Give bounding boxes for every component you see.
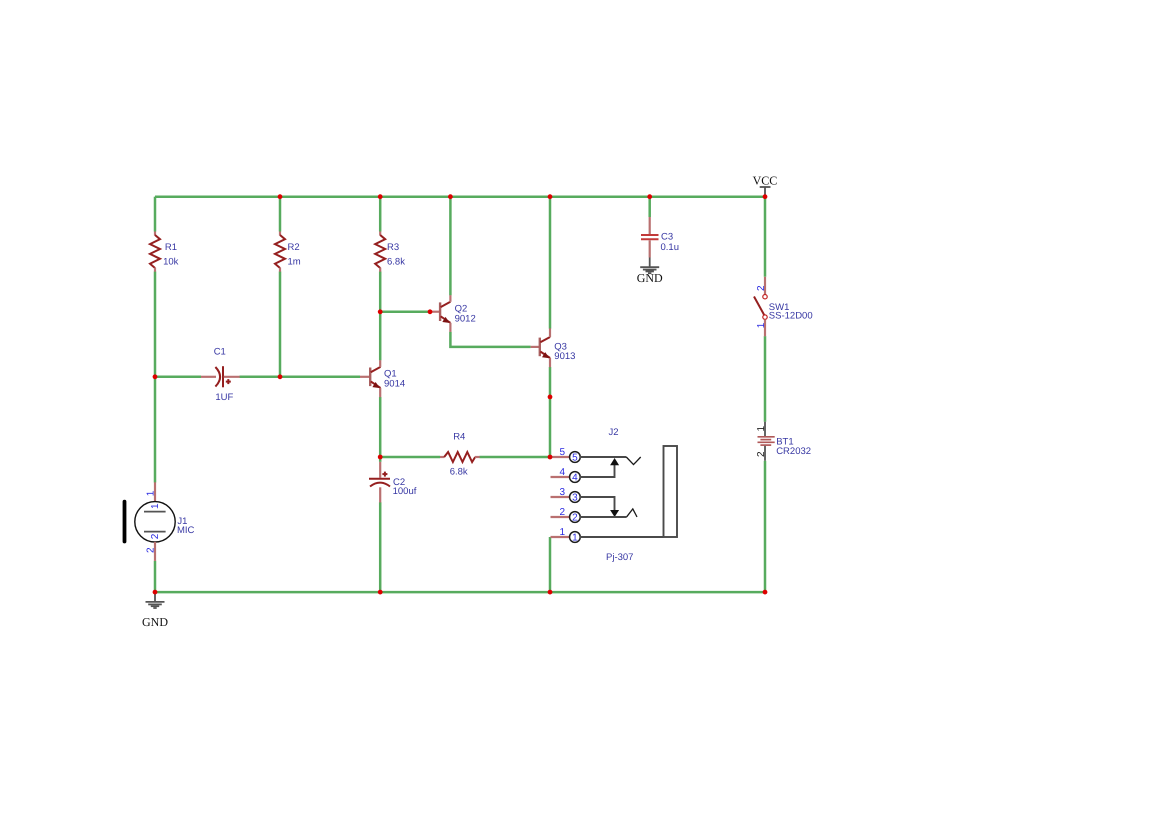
J2 pin 2 circle [570,512,581,523]
svg-text:6.8k: 6.8k [387,257,405,268]
SW1 lower contact circle [763,315,767,319]
wire C1 row left [155,376,201,379]
GND bars [146,601,165,603]
svg-text:100uf: 100uf [393,486,417,497]
svg-text:0.1u: 0.1u [661,242,680,253]
Q3 base pin lead [531,346,540,348]
svg-text:1m: 1m [288,257,301,268]
J2 pin 4 lead [551,476,571,478]
wire R4 right [480,456,551,459]
GND bars [640,266,659,268]
svg-text:R2: R2 [288,242,300,253]
R1 zigzag body [150,235,160,268]
J2 pin 5 lead [551,456,571,458]
VCC bar [760,186,771,188]
wire node to Q2 base [380,311,430,314]
svg-text:3: 3 [572,492,578,503]
GND stem [649,258,651,268]
svg-text:9012: 9012 [455,313,476,324]
wire R2 bottom to C1 row [279,272,282,377]
junction C1 row left rail [153,374,158,379]
svg-text:4: 4 [560,467,566,478]
svg-text:1: 1 [756,322,767,328]
svg-text:2: 2 [756,285,767,291]
svg-text:2: 2 [560,507,566,518]
svg-text:4: 4 [572,472,578,483]
J2 ring contact line [580,516,627,518]
junction VCC corner [763,194,768,199]
Q2 upper pin lead [449,295,451,302]
wire left rail upper [154,197,157,232]
J2 tip contact line [580,456,626,458]
J2 pin 1 lead [551,536,571,538]
svg-text:Pj-307: Pj-307 [606,552,633,563]
svg-text:GND: GND [637,271,663,285]
J1 mic circle body [135,502,175,542]
SW1 pin 2 lead [764,277,766,295]
R2 pin 2 lead [279,268,281,272]
Q2 base bar [439,302,441,321]
capacitor C2 [369,462,417,503]
Q3 emitter arrow [542,352,550,358]
C2 straight positive plate [369,478,390,480]
C1 plus sign [226,381,231,383]
junction C1 row R2 [278,374,283,379]
J2 pin 4 switch line [580,461,615,477]
junction R3 column Q2 base [378,309,383,314]
svg-text:2: 2 [150,533,161,539]
Q3 emitter pin lead [549,358,551,367]
C2 curved negative plate [370,483,390,487]
C3 pin 2 lead [649,240,651,257]
svg-text:3: 3 [560,487,566,498]
junction top rail R2 [278,194,283,199]
R2 pin 1 lead [279,232,281,236]
junction Q2 base pin [428,309,433,314]
Q2 lower pin lead [449,323,451,332]
svg-text:GND: GND [142,615,168,629]
svg-text:5: 5 [560,447,566,458]
wire left rail R1 to C1 row and J1 [154,272,157,483]
resistor R4 [440,432,480,478]
J2 pin 4 arrow up [610,458,619,465]
wire Q1 emitter to C2 [379,397,382,462]
Q1 base pin lead [360,376,370,378]
SW1 upper contact circle [763,295,767,299]
R4 pin 2 lead [475,456,480,458]
C1 curved negative plate [215,367,220,387]
J1 pin 1 lead [154,482,156,501]
power flag VCC [753,173,778,196]
J2 pin 4 circle [570,472,581,483]
C3 pin 1 lead [649,217,651,234]
junction top rail R3 [378,194,383,199]
wire Q2 emitter to Q3 base [450,332,530,347]
wire SW1 to BT1 [764,336,767,422]
svg-text:1: 1 [560,527,566,538]
wire right rail to SW1 [764,197,767,277]
Q1 collector pin lead [379,360,381,367]
J2 pin 3 arrow down [610,510,619,517]
R3 pin 1 lead [379,232,381,236]
SW1 lever [754,297,764,316]
wire bottom GND rail [155,591,765,594]
svg-text:SS-12D00: SS-12D00 [769,311,813,322]
svg-text:2: 2 [756,451,767,457]
C1 pin 1 lead [201,376,216,378]
capacitor C3 [641,217,679,258]
svg-text:6.8k: 6.8k [450,467,468,478]
wire R4 left [380,456,440,459]
J2 pin 1 circle [570,532,581,543]
junction R4 left node [378,455,383,460]
wire top VCC rail [155,195,765,198]
junction bottom rail C2 [378,590,383,595]
svg-text:1: 1 [756,426,767,432]
resistor R1 [150,232,179,272]
wire BT1 to bottom rail [764,461,767,592]
J1 pin 2 lead [154,542,156,561]
C1 straight positive plate [222,366,224,387]
J2 ring spring notch [627,509,637,517]
resistor R2 [275,232,301,272]
C2 pin 1 lead [379,462,381,478]
svg-text:1: 1 [150,503,161,509]
ground bottom left [142,592,168,629]
svg-text:C3: C3 [661,232,673,243]
svg-text:MIC: MIC [177,525,195,536]
J2 sleeve contact line [580,536,664,538]
Q3 base bar [539,338,541,357]
wire C2 to bottom rail [379,502,382,592]
svg-text:VCC: VCC [753,173,778,187]
wire J2 pin1 to bottom rail [549,537,552,592]
transistor Q2 [430,295,476,332]
Q2 arrow [442,317,450,323]
svg-text:9013: 9013 [554,351,575,362]
resistor R3 [375,232,405,272]
wire R3 to Q1 collector [379,272,382,361]
battery BT1 [756,422,811,461]
SW1 pin 1 lead [764,319,766,336]
J2 pin 3 circle [570,492,581,503]
R4 pin 1 lead [440,456,444,458]
wire C1 to Q1 base [240,376,361,379]
svg-text:2: 2 [146,547,157,553]
C3 plates [641,234,659,236]
svg-text:CR2032: CR2032 [776,446,811,457]
svg-text:1: 1 [572,532,578,543]
junction top rail C3 [647,194,652,199]
VCC stem [764,187,766,196]
svg-text:2: 2 [572,512,578,523]
junction bottom rail GND [153,590,158,595]
svg-text:1: 1 [146,490,157,496]
wire R2 top [279,197,282,232]
svg-text:R3: R3 [387,242,399,253]
GND stem [154,592,156,602]
Q1 emitter stroke [371,381,381,388]
svg-text:10k: 10k [163,257,179,268]
Q1 base bar [369,368,371,387]
BT1 cell plates [758,436,775,438]
C2 pin 2 lead [379,487,381,502]
ground below C3 [637,258,663,286]
svg-text:9014: 9014 [384,378,405,389]
svg-text:J2: J2 [609,427,619,438]
wire R3 top [379,197,382,232]
junction R4 right J2 pin5 node [548,455,553,460]
Q1 collector stroke [371,367,381,372]
junction top rail Q3 collector [548,194,553,199]
svg-text:C1: C1 [214,347,226,358]
wire C3 top [648,197,651,217]
C2 plus sign [382,473,387,475]
wire Q3 collector to top rail [549,197,552,329]
wire Q2 collector to top rail [449,197,452,296]
Q1 emitter pin lead [379,388,381,397]
J1 mic side bar [123,500,127,544]
svg-text:R1: R1 [165,242,177,253]
J2 pin 5 circle [570,452,581,463]
BT1 pin 1 lead [764,422,766,436]
J1 internal plates [144,511,166,513]
capacitor C1 [201,347,240,404]
R3 pin 2 lead [379,268,381,272]
Q1 emitter arrow [372,382,380,388]
svg-text:5: 5 [572,452,578,463]
Q2 upper stroke [441,302,451,307]
BT1 pin 2 lead [764,446,766,461]
junction bottom rail right corner [763,590,768,595]
svg-text:1UF: 1UF [215,392,233,403]
Q3 collector pin lead [549,328,551,337]
junction Q3 emitter wire [548,395,553,400]
junction bottom rail J2 [548,590,553,595]
connector J2 [551,427,678,563]
R1 pin 1 lead [154,232,156,236]
microphone J1 [123,482,195,561]
svg-text:R4: R4 [453,432,465,443]
Q3 collector stroke [540,337,550,342]
Q2 lower stroke [441,316,451,323]
R4 zigzag body [444,452,475,462]
R2 zigzag body [275,235,285,268]
J2 pin 3 lead [551,496,571,498]
Q3 emitter stroke [540,352,550,359]
J2 pin 2 lead [551,516,571,518]
switch SW1 [754,277,813,337]
R3 zigzag body [375,235,385,268]
R1 pin 2 lead [154,268,156,272]
wire Q3 emitter to R4 node [549,367,552,457]
Q2 base pin lead [430,311,440,313]
J2 tip spring notch [626,457,640,465]
transistor Q1 [360,360,405,397]
wire J1 pin2 to bottom rail [154,561,157,592]
J2 jack body rectangle [664,446,678,537]
transistor Q3 [531,328,576,367]
J2 pin 3 switch line [580,497,615,513]
junction top rail Q2 collector [448,194,453,199]
C1 pin 2 lead [224,376,240,378]
